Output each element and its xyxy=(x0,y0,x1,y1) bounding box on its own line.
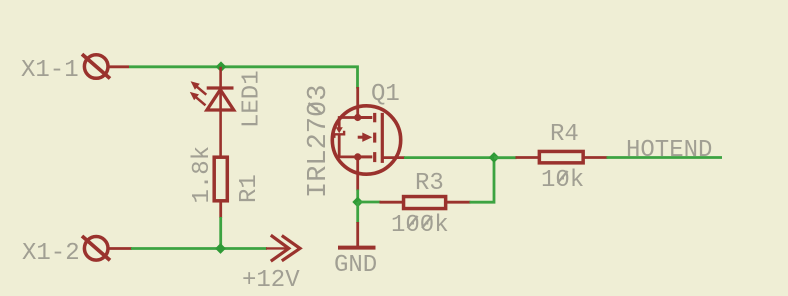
svg-text:R1: R1 xyxy=(236,174,263,203)
svg-text:R4: R4 xyxy=(550,121,579,148)
pin stub R3 left xyxy=(380,201,404,204)
Q1 internal drain-source structure xyxy=(354,114,372,161)
wire R1 to bottom rail xyxy=(219,217,222,249)
transistor Q1 circle xyxy=(332,106,400,174)
wire junction to R3 xyxy=(358,201,381,204)
pin stub R4 right xyxy=(584,156,608,159)
wire top rail X1-1 to Q1 drain corner xyxy=(129,67,358,89)
pin stub X1-2 xyxy=(108,247,132,250)
svg-text:X1-1: X1-1 xyxy=(21,57,79,84)
wire R3 to gate node xyxy=(470,158,495,203)
svg-text:R3: R3 xyxy=(415,170,444,197)
wire / net HOTEND xyxy=(607,156,723,159)
pin stub R4 left xyxy=(516,156,540,159)
resistor R3 body xyxy=(404,197,446,209)
pin stub R3 right xyxy=(447,201,471,204)
Q1 body diode triangle xyxy=(336,127,343,133)
resistor R4 body xyxy=(539,151,583,162)
wire Q1 source to GND junction xyxy=(356,190,359,203)
Q1 drain pin (top) xyxy=(356,87,359,117)
Q1 source pin (bottom) xyxy=(356,157,359,191)
Q1 body diode loop xyxy=(334,118,357,157)
diode LED1 symbol xyxy=(207,88,234,110)
wire LED pin from junction xyxy=(219,67,222,88)
pin GND xyxy=(356,222,359,246)
svg-text:Q1: Q1 xyxy=(371,81,400,108)
svg-text:100k: 100k xyxy=(391,212,449,239)
pin stub R1 bottom xyxy=(219,203,222,219)
svg-text:GND: GND xyxy=(334,252,377,279)
wire gate pin to junction xyxy=(404,156,494,159)
svg-text:1.8k: 1.8k xyxy=(189,146,216,204)
wire bottom rail X1-2 to +12V xyxy=(131,247,267,250)
ground symbol xyxy=(338,246,376,250)
node junction source/R3/GND xyxy=(352,197,363,208)
svg-text:IRL2703: IRL2703 xyxy=(304,85,334,198)
LED1 emission arrow 1 xyxy=(191,81,207,94)
wire junction to GND symbol xyxy=(356,202,359,223)
svg-text:HOTEND: HOTEND xyxy=(626,137,712,164)
node junction bottom rail / R1 xyxy=(215,243,226,254)
wire junction to R4 xyxy=(494,156,517,159)
supply symbol +12V arrow xyxy=(266,235,300,261)
LED1 emission arrow 2 xyxy=(190,92,206,105)
node junction top rail / LED xyxy=(216,61,227,72)
svg-text:+12V: +12V xyxy=(242,267,300,294)
svg-text:X1-2: X1-2 xyxy=(22,240,80,267)
node junction gate/R3/R4 xyxy=(489,152,500,163)
Q1 gate pin (right) xyxy=(383,156,405,159)
Q1 channel bars xyxy=(375,113,383,163)
svg-text:10k: 10k xyxy=(541,167,584,194)
wire LED anode to R1 xyxy=(219,89,222,156)
resistor R1 body xyxy=(214,157,227,201)
pin stub X1-1 xyxy=(108,65,129,68)
svg-text:LED1: LED1 xyxy=(239,70,266,128)
connector pad X1-1 xyxy=(82,54,110,78)
connector pad X1-2 xyxy=(82,236,110,260)
